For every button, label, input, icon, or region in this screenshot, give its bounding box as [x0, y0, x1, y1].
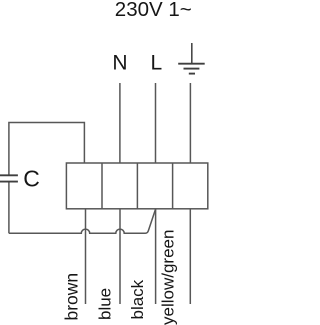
svg-text:brown: brown: [62, 273, 82, 321]
svg-text:C: C: [23, 166, 40, 192]
svg-text:black: black: [128, 279, 147, 319]
svg-text:230V 1~: 230V 1~: [115, 0, 192, 21]
svg-text:L: L: [151, 52, 163, 75]
svg-text:blue: blue: [96, 288, 115, 320]
svg-text:yellow/green: yellow/green: [159, 230, 178, 325]
svg-text:N: N: [112, 51, 127, 74]
